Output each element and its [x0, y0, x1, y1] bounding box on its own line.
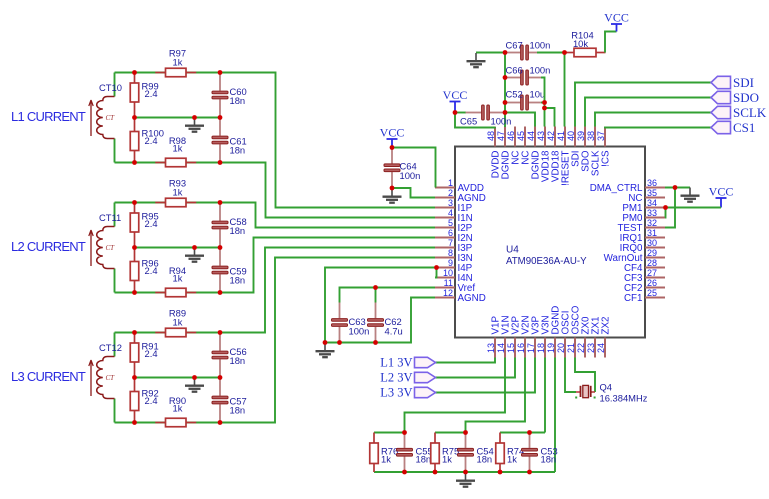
svg-text:14: 14: [496, 343, 506, 353]
pin 28 CF4: [645, 267, 665, 269]
wire CT12 coil top connection: [114, 333, 116, 357]
svg-text:18n: 18n: [230, 225, 246, 236]
resistor R100: [134, 118, 136, 132]
wire OSCO to crystal: [575, 358, 595, 393]
junction at (564.5,52.5): [562, 50, 567, 55]
pin 9 I4P: [435, 267, 455, 269]
junction at (435,472): [433, 470, 438, 475]
capacitor C67: [505, 52, 520, 54]
pin 29 WarnOut: [645, 257, 665, 259]
junction at (220,422.5): [218, 420, 223, 425]
svg-text:1k: 1k: [507, 454, 517, 465]
pin 39 SDO: [584, 127, 586, 147]
wire VCC to DVDD pin 48: [455, 113, 495, 128]
svg-text:CT: CT: [106, 244, 116, 252]
wire CT10 center tap rail: [135, 117, 221, 119]
pin 37 !CS: [604, 127, 606, 147]
connector SDO: [711, 91, 731, 103]
capacitor C62: [375, 303, 377, 319]
junction at (505,102.5): [503, 100, 508, 105]
capacitor C55: [404, 433, 406, 448]
svg-text:SDO: SDO: [733, 90, 759, 105]
svg-text:3: 3: [448, 198, 453, 208]
pin 7 I3P: [435, 247, 455, 249]
pin 4 I1N: [435, 217, 455, 219]
junction at (194.5,117.5): [192, 115, 197, 120]
resistor R104: [565, 52, 575, 54]
svg-text:CT11: CT11: [99, 212, 121, 223]
svg-text:C65: C65: [460, 116, 477, 127]
svg-text:2.4: 2.4: [145, 348, 158, 359]
svg-text:7: 7: [448, 238, 453, 248]
svg-text:SDI: SDI: [733, 75, 754, 90]
pin 15 V2P: [514, 338, 516, 358]
svg-text:1k: 1k: [173, 273, 183, 284]
junction at (544.5,108): [542, 106, 547, 111]
resistor R75: [434, 433, 436, 444]
wire C67 to RESET node: [537, 52, 565, 54]
junction at (220,117.5): [218, 115, 223, 120]
junction at (134.5,202.5): [132, 200, 137, 205]
resistor R94: [155, 292, 165, 294]
junction at (134.5,162.5): [132, 160, 137, 165]
svg-text:18n: 18n: [230, 355, 246, 366]
wire CT10 top rail to IC: [115, 73, 436, 208]
wire PM1 to PM0: [664, 208, 667, 218]
ground top left: [467, 53, 486, 67]
svg-text:VCC: VCC: [709, 184, 734, 198]
capacitor C65: [466, 112, 482, 114]
resistor R95: [134, 203, 136, 214]
pin 17 V3P: [534, 338, 536, 358]
resistor R76: [373, 433, 375, 444]
capacitor C52: [505, 102, 520, 104]
svg-text:27: 27: [647, 268, 657, 278]
junction at (465.5,472): [463, 470, 468, 475]
capacitor C57: [219, 378, 221, 396]
pin 14 V1N: [504, 338, 506, 358]
pin 24 ZX2: [604, 338, 606, 358]
svg-text:CT12: CT12: [99, 342, 122, 353]
svg-text:36: 36: [647, 178, 657, 188]
svg-text:37: 37: [596, 131, 606, 141]
junction at (455,112.5): [453, 110, 458, 115]
svg-text:1k: 1k: [173, 403, 183, 414]
wire CT11 coil bottom connection: [114, 269, 116, 293]
wire L3 3V net: [436, 358, 536, 393]
pin 31 IRQ1: [645, 237, 665, 239]
wire Vref pin 11 to C62 C63: [340, 288, 436, 303]
junction at (529.5,472): [527, 470, 532, 475]
svg-text:18n: 18n: [230, 275, 246, 286]
pin 41 !RESET: [564, 127, 566, 147]
junction at (665.5,207.5): [663, 205, 668, 210]
junction at (392,188): [390, 186, 395, 191]
junction at (220,332.5): [218, 330, 223, 335]
ground at CT10 center tap: [185, 118, 204, 132]
svg-text:8: 8: [448, 248, 453, 258]
svg-text:100n: 100n: [530, 40, 551, 51]
connector L3 3V: [415, 387, 436, 397]
junction at (339.5,342.5): [337, 340, 342, 345]
pin 48 DVDD: [494, 127, 496, 147]
junction at (375.5,287.5): [373, 285, 378, 290]
capacitor C61: [219, 118, 221, 136]
junction at (500,472): [498, 470, 503, 475]
wire VDD18 to pin 42: [545, 108, 555, 127]
junction at (134.5,117.5): [132, 115, 137, 120]
junction at (134.5,332.5): [132, 330, 137, 335]
svg-text:32: 32: [647, 218, 657, 228]
wire SDO net: [585, 98, 711, 127]
svg-text:L2 3V: L2 3V: [380, 371, 412, 385]
svg-text:L1 3V: L1 3V: [380, 356, 412, 370]
capacitor C64: [391, 148, 393, 164]
pin 8 I3N: [435, 257, 455, 259]
svg-text:33: 33: [647, 208, 657, 218]
pin 36 DMA_CTRL: [645, 187, 665, 189]
pin 47 DGND: [504, 127, 506, 147]
svg-text:34: 34: [647, 198, 657, 208]
junction at (505,112.5): [503, 110, 508, 115]
pin 34 PM1: [645, 207, 665, 209]
svg-text:CF1: CF1: [624, 293, 643, 304]
svg-text:18n: 18n: [230, 95, 246, 106]
capacitor C66: [505, 77, 520, 79]
capacitor C56: [219, 333, 221, 351]
IC U4 ATM90E36A-AU-Y body: [455, 147, 645, 338]
junction at (220,202.5): [218, 200, 223, 205]
pin 43 VDD18: [544, 127, 546, 147]
connector SCLK: [711, 106, 731, 118]
junction at (194.5,377.5): [192, 375, 197, 380]
wire CT11 coil top connection: [114, 203, 116, 227]
pin 38 SCLK: [594, 127, 596, 147]
node DGND vertical: [504, 53, 506, 128]
svg-text:35: 35: [647, 188, 657, 198]
junction at (375.5,342.5): [373, 340, 378, 345]
junction at (220,247.5): [218, 245, 223, 250]
svg-text:11: 11: [444, 278, 453, 288]
crystal Q4: [576, 385, 595, 397]
pin 19 DGND: [554, 338, 556, 358]
pin 27 CF3: [645, 277, 665, 279]
pin 2 AGND: [435, 197, 455, 199]
svg-text:9: 9: [448, 258, 453, 268]
capacitor C54: [465, 433, 467, 448]
svg-text:VCC: VCC: [380, 125, 405, 139]
svg-text:43: 43: [536, 131, 546, 141]
junction at (505,52.5): [503, 50, 508, 55]
svg-text:100n: 100n: [530, 65, 551, 76]
svg-text:1k: 1k: [442, 454, 452, 465]
svg-text:40: 40: [566, 131, 576, 141]
wire SCLK net: [595, 113, 711, 127]
pin 23 ZX1: [594, 338, 596, 358]
wire R74 C53 top rail: [500, 432, 545, 434]
svg-text:13: 13: [486, 343, 496, 353]
svg-text:2.4: 2.4: [145, 88, 158, 99]
resistor R99: [134, 73, 136, 84]
junction at (675,187.5): [673, 185, 678, 190]
pin 11 Vref: [435, 287, 455, 289]
connector SDI: [711, 76, 731, 88]
wire OSCI to crystal: [565, 358, 576, 393]
junction at (220,377.5): [218, 375, 223, 380]
junction at (436.5,267.5): [434, 265, 439, 270]
svg-text:39: 39: [576, 131, 586, 141]
junction at (134.5,422.5): [132, 420, 137, 425]
resistor R90: [155, 422, 165, 424]
svg-text:10u: 10u: [530, 89, 546, 100]
connector CS1: [711, 121, 731, 133]
svg-text:42: 42: [546, 131, 556, 141]
wire CT11 top rail to IC: [115, 203, 436, 228]
pin 44 DGND: [534, 127, 536, 147]
pin 46 NC: [514, 127, 516, 147]
wire DGND pin 19 down: [554, 358, 556, 473]
junction at (134.5,247.5): [132, 245, 137, 250]
capacitor C63: [339, 303, 341, 319]
junction at (544.5,102.5): [542, 100, 547, 105]
pin 35 NC: [645, 197, 665, 199]
wire AGND rail to pin 12: [325, 298, 435, 343]
pin 13 V1P: [494, 338, 496, 358]
junction at (529.5,432.5): [527, 430, 532, 435]
svg-text:22: 22: [576, 343, 586, 353]
junction at (404.5,472): [402, 470, 407, 475]
svg-text:20: 20: [556, 343, 566, 353]
ground on AGND rail: [316, 343, 335, 357]
svg-text:18n: 18n: [416, 454, 432, 465]
junction at (220,292.5): [218, 290, 223, 295]
svg-text:2.4: 2.4: [145, 395, 158, 406]
junction at (465.5,432.5): [463, 430, 468, 435]
svg-text:25: 25: [647, 288, 657, 298]
svg-text:100n: 100n: [349, 326, 370, 337]
svg-text:10k: 10k: [573, 38, 588, 49]
junction at (404.5,432.5): [402, 430, 407, 435]
wire bottom ground rail: [374, 471, 555, 473]
svg-text:4: 4: [448, 208, 453, 218]
pin 6 I2N: [435, 237, 455, 239]
svg-text:19: 19: [546, 343, 556, 353]
pin 45 NC: [524, 127, 526, 147]
svg-text:2.4: 2.4: [145, 135, 158, 146]
wire Vref to C62: [375, 288, 377, 303]
pin 16 V2N: [524, 338, 526, 358]
svg-text:1k: 1k: [173, 187, 183, 198]
pin 10 I4N: [435, 277, 455, 279]
wire VCC to C65: [455, 112, 466, 114]
wire DMA_CTRL to ground: [665, 187, 690, 189]
svg-text:41: 41: [556, 131, 566, 141]
wire CT12 coil bottom connection: [114, 399, 116, 423]
wire VDD18 net vertical: [541, 78, 545, 127]
svg-text:24: 24: [596, 343, 606, 353]
svg-text:18n: 18n: [541, 454, 557, 465]
svg-text:23: 23: [586, 343, 596, 353]
resistor R98: [155, 162, 165, 164]
svg-text:31: 31: [647, 228, 657, 238]
wire C52 to VDD18: [541, 102, 545, 104]
current transformer CT11: [89, 227, 115, 269]
wire SDI net: [575, 83, 711, 127]
svg-text:12: 12: [443, 288, 453, 298]
pin 33 PM0: [645, 217, 665, 219]
current transformer CT10: [89, 97, 115, 139]
svg-text:CT: CT: [106, 114, 116, 122]
junction at (392,147.5): [390, 145, 395, 150]
svg-text:48: 48: [486, 131, 496, 141]
junction at (505,77.5): [503, 75, 508, 80]
svg-text:100n: 100n: [491, 116, 512, 127]
wire CT10 bottom rail to IC: [115, 163, 436, 218]
junction at (325,342.5): [323, 340, 328, 345]
svg-text:Q4: Q4: [600, 382, 613, 393]
wire VCC to PM1: [666, 207, 722, 209]
svg-text:15: 15: [506, 343, 516, 353]
svg-text:28: 28: [647, 258, 657, 268]
connector L2 3V: [415, 372, 436, 382]
pin 25 CF1: [645, 297, 665, 299]
wire CT10 coil bottom connection: [114, 139, 116, 163]
svg-text:ATM90E36A-AU-Y: ATM90E36A-AU-Y: [506, 256, 587, 267]
wire CT10 coil top connection: [114, 73, 116, 97]
svg-text:1k: 1k: [173, 57, 183, 68]
svg-text:U4: U4: [506, 245, 519, 256]
svg-text:18: 18: [536, 343, 546, 353]
wire CT12 bottom rail to IC: [115, 258, 436, 423]
svg-text:38: 38: [586, 131, 596, 141]
ground below C64: [383, 189, 402, 203]
svg-text:2.4: 2.4: [145, 265, 158, 276]
svg-text:L3 3V: L3 3V: [380, 386, 412, 400]
svg-text:100n: 100n: [400, 170, 421, 181]
ground at CT12 center tap: [185, 378, 204, 392]
wire CS1 net: [605, 127, 711, 128]
svg-text:1k: 1k: [173, 143, 183, 154]
wire ground to C67: [476, 52, 505, 54]
resistor R74: [499, 433, 501, 444]
pin 32 TEST: [645, 227, 665, 229]
svg-text:46: 46: [506, 131, 516, 141]
svg-text:L2 CURRENT: L2 CURRENT: [11, 239, 86, 254]
svg-text:C67: C67: [506, 40, 523, 51]
svg-text:2: 2: [448, 188, 453, 198]
svg-text:SCLK: SCLK: [733, 105, 767, 120]
svg-text:30: 30: [647, 238, 657, 248]
resistor R93: [155, 202, 165, 204]
pin 18 V3N: [544, 338, 546, 358]
svg-text:ZX2: ZX2: [601, 317, 612, 335]
wire L2 3V net: [436, 358, 516, 378]
junction at (220,72.5): [218, 70, 223, 75]
junction at (134.5,292.5): [132, 290, 137, 295]
svg-text:1: 1: [448, 178, 453, 188]
wire V3N to R74 C53: [544, 358, 546, 433]
svg-text:18n: 18n: [230, 145, 246, 156]
svg-text:18n: 18n: [477, 454, 493, 465]
svg-text:44: 44: [526, 131, 536, 141]
svg-text:17: 17: [526, 343, 536, 353]
wire L1 3V net: [436, 358, 496, 363]
wire R104 to VCC: [605, 32, 617, 53]
resistor R89: [155, 332, 165, 334]
pin 5 I2P: [435, 227, 455, 229]
svg-text:6: 6: [448, 228, 453, 238]
svg-text:1k: 1k: [173, 317, 183, 328]
wire R75 C54 top rail: [435, 432, 466, 434]
svg-text:21: 21: [566, 343, 576, 353]
svg-text:L3 CURRENT: L3 CURRENT: [11, 369, 86, 384]
svg-text:16: 16: [516, 343, 526, 353]
svg-text:CT10: CT10: [99, 82, 122, 93]
wire CT12 center tap rail: [135, 377, 221, 379]
capacitor C58: [219, 203, 221, 221]
resistor R91: [134, 333, 136, 344]
ground right side: [681, 188, 700, 202]
svg-text:29: 29: [647, 248, 657, 258]
resistor R96: [134, 248, 136, 262]
capacitor C59: [219, 248, 221, 266]
svg-text:C66: C66: [506, 65, 523, 76]
svg-text:L1 CURRENT: L1 CURRENT: [11, 109, 86, 124]
pin 26 CF2: [645, 287, 665, 289]
capacitor C53: [529, 433, 531, 448]
junction at (134.5,72.5): [132, 70, 137, 75]
svg-text:!CS: !CS: [601, 150, 612, 167]
svg-text:47: 47: [496, 131, 506, 141]
svg-text:4.7u: 4.7u: [385, 326, 403, 337]
svg-text:VCC: VCC: [604, 10, 629, 24]
wire CT11 bottom rail to IC: [115, 238, 436, 293]
current transformer CT12: [89, 357, 115, 399]
wire V1N to R76 C55: [405, 358, 506, 433]
svg-text:1k: 1k: [381, 454, 391, 465]
svg-text:C52: C52: [506, 89, 523, 100]
ground at CT11 center tap: [185, 248, 204, 262]
svg-text:10: 10: [443, 268, 453, 278]
pin 42 VDD18: [554, 127, 556, 147]
wire V2N to R75 C54: [466, 358, 526, 433]
wire DGND to pin 44: [505, 113, 535, 127]
svg-text:18n: 18n: [230, 405, 246, 416]
svg-text:CS1: CS1: [733, 120, 755, 135]
wire VCC to AVDD pin 1: [392, 148, 436, 188]
svg-text:45: 45: [516, 131, 526, 141]
capacitor C60: [219, 73, 221, 91]
svg-text:CT: CT: [106, 374, 116, 382]
wire CT12 top rail to IC: [115, 248, 436, 333]
wire I4N tie to I4P: [435, 268, 437, 278]
pin 12 AGND: [435, 297, 455, 299]
pin 3 I1P: [435, 207, 455, 209]
wire I4P to AGND: [325, 268, 437, 343]
svg-text:AGND: AGND: [458, 293, 486, 304]
junction at (194.5,247.5): [192, 245, 197, 250]
svg-text:5: 5: [448, 218, 453, 228]
wire DMA_CTRL to TEST: [665, 188, 675, 228]
resistor R92: [134, 378, 136, 392]
resistor R97: [155, 72, 165, 74]
wire R76 C55 top rail: [374, 432, 405, 434]
pin 1 AVDD: [435, 187, 455, 189]
svg-text:2.4: 2.4: [145, 218, 158, 229]
pin 20 OSCI: [564, 338, 566, 358]
pin 40 SDI: [574, 127, 576, 147]
connector L1 3V: [415, 357, 436, 367]
